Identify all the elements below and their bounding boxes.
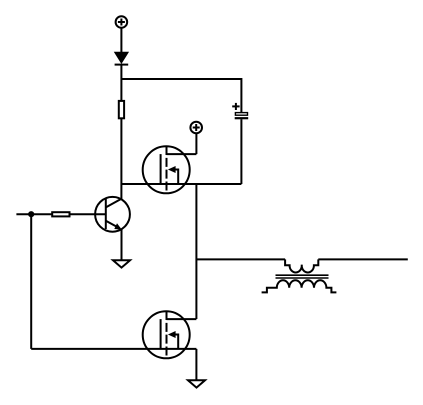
transistor Q3 bbox=[95, 197, 130, 232]
wire diode to resistor R1 bbox=[120, 65, 122, 101]
resistor R2 bbox=[52, 212, 69, 216]
wire node to capacitor top bbox=[121, 79, 241, 112]
ground GND2 bbox=[188, 380, 205, 387]
wire Q1 source to Q2 drain bbox=[195, 184, 197, 319]
node A junction dot bbox=[28, 211, 34, 217]
wire R1 to collector node bbox=[120, 118, 122, 199]
wire capacitor bottom to source rail bbox=[240, 119, 242, 184]
diode D1 bbox=[115, 53, 129, 65]
power supply +V1 bbox=[116, 16, 128, 28]
power supply +V2 bbox=[190, 122, 202, 134]
wire output node to transformer bbox=[196, 258, 285, 260]
transformer T1 bbox=[262, 259, 337, 292]
wire V2 to Q1 drain bbox=[195, 134, 197, 155]
wire source rail bbox=[121, 183, 241, 185]
mosfet Q1 bbox=[143, 146, 197, 193]
wire R2 to base bbox=[70, 213, 106, 215]
wire transformer to right bbox=[318, 258, 408, 260]
wire input lead bbox=[16, 213, 52, 215]
wire emitter to ground bbox=[121, 230, 123, 261]
wire node A down bbox=[30, 214, 32, 349]
mosfet Q2 bbox=[143, 311, 197, 358]
wire V1 to diode bbox=[120, 28, 122, 53]
wire Q2 source to ground bbox=[195, 349, 197, 380]
resistor R1 bbox=[119, 101, 124, 118]
wire lower gate/source rail bbox=[31, 348, 196, 350]
ground GND1 bbox=[113, 260, 130, 267]
capacitor C1 bbox=[232, 103, 248, 118]
